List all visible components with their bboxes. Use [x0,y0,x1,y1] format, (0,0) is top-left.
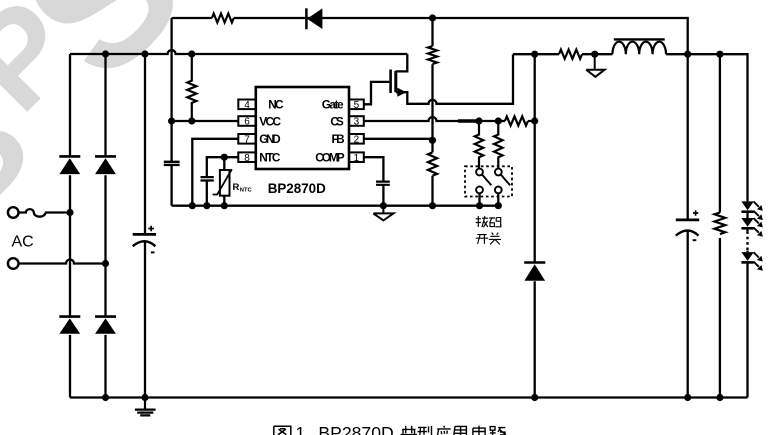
svg-text:VCC: VCC [259,115,281,129]
resistor R4 (FB divider lower) [428,152,437,175]
wire AC bottom to bridge node (hop over left leg) [19,260,106,264]
svg-text:COMP: COMP [315,151,345,165]
svg-text:R: R [233,182,240,193]
wire freewheel column [534,54,536,397]
node rail SW1b [495,202,502,209]
wire NTC pin node [207,157,239,206]
node rail RNTC [221,202,228,209]
wire gate from pin 5 [364,82,390,104]
fuse F1 [19,209,46,217]
node VCC left [168,117,175,124]
pin 5 box [349,100,364,110]
switch SW1 stubs to ground rail [480,193,499,205]
node rail COMP [380,202,387,209]
svg-text:NTC: NTC [240,187,253,193]
svg-text:1: 1 [295,423,305,435]
resistor R1 (VCC feed) [212,14,234,23]
node rail SW1a [476,202,483,209]
node VCC right [188,117,195,124]
label dip-switch line2 (开关) [476,233,501,245]
resistor R3 (FB divider upper) [428,46,437,64]
switch SW1 dashed box [465,166,512,196]
svg-text:FB: FB [332,132,345,146]
AC input terminal bottom [8,258,19,269]
svg-text:NC: NC [268,98,284,112]
node rail bottom C [141,394,148,401]
resistor R5 (CS set 1) [475,121,484,169]
wire switch node bus [513,54,748,201]
capacitor C4 (COMP) [376,182,390,185]
node VCC feed tap [429,14,436,21]
transistor Q1 gate bar [389,70,392,94]
node bus leg B [102,50,109,57]
wire CS from pin 3 (hop over FB column) [364,117,458,121]
LED D7 [741,201,753,210]
resistor R9 (load bleeder) [715,213,726,235]
node rail bottom B [102,394,109,401]
AC input terminal top [8,207,19,218]
node switch bus CS [531,51,538,58]
label dip-switch line1 (拨码) [476,216,501,227]
switch SW1 contacts [476,169,483,176]
pin 1 box [349,152,364,162]
ground (COMP, open triangle) [373,206,393,221]
svg-text:3: 3 [354,117,360,128]
svg-text:AC: AC [12,233,34,250]
node rail GND pin [189,202,196,209]
wire output resistor column [719,54,721,397]
svg-text:BP2870D: BP2870D [268,181,326,196]
pin 4 box [238,100,256,110]
node NTC [221,154,228,161]
svg-text:8: 8 [244,153,250,164]
diode D6 (freewheel) [524,261,545,264]
capacitor C3 (NTC filter) [201,177,214,180]
diode D5 (VCC feed, pointing left) [305,8,308,29]
wire FB from pin 2 [364,138,433,140]
wire chip local ground rail [172,205,499,207]
switch SW1 arms [482,175,510,186]
pin 2 box [349,134,364,144]
wire bridge left leg [69,54,71,398]
node FB [429,137,436,144]
svg-text:6: 6 [244,117,250,128]
diode D2 (bridge upper-right) [95,155,116,158]
wire rectified bus [70,50,407,54]
wire VCC pin to cap [172,120,239,122]
diode D3 (bridge lower-left) [59,315,80,318]
resistor R7 (CS series) [505,116,528,125]
node CS set 2 [495,117,502,124]
node CS set 1 [475,117,482,124]
inductor L1 [612,42,666,55]
capacitor C5 electrolytic output [676,218,699,221]
wire bottom rail [70,396,748,398]
resistor R6 (CS set 2) [494,121,503,169]
wire dotted LED continuation [746,228,748,252]
node rail NTC cap [203,202,210,209]
node output A [684,51,691,58]
svg-text:CS: CS [330,115,343,129]
pin 8 box [238,152,256,162]
transistor Q1 channel bar [394,71,397,92]
ground main [135,398,156,416]
resistor R8 (output sense) [559,50,582,59]
node output B [716,51,723,58]
wire bridge right leg [104,54,106,398]
svg-text:2: 2 [354,135,360,146]
node bus cap [141,50,148,57]
diode D4 (bridge lower-right) [95,315,116,318]
node inductor gnd [591,51,598,58]
node AC bottom tap [102,260,109,267]
LED D8 [746,212,748,218]
node AC top tap [66,209,73,216]
node rail bottom diode [531,394,538,401]
transistor Q1 drain wire [396,54,408,71]
caption figure (partially cropped) [274,426,291,435]
svg-text:GND: GND [259,132,281,146]
wire AC top to bridge node [45,211,70,213]
thermistor RNTC [223,157,225,206]
LED D9 [741,252,753,261]
pin labels [259,98,345,165]
svg-text:7: 7 [244,135,250,146]
node bus startup [188,50,195,57]
svg-text:4: 4 [244,100,250,111]
wire COMP from pin 1 [364,157,384,206]
wire input cap column [144,54,146,398]
capacitor C2 (VCC decoupling) [164,162,180,165]
ground (inductor node, open triangle) [586,54,604,77]
transistor Q1 source wire (hop over FB column) [396,54,513,104]
svg-text:BP2870D: BP2870D [318,423,393,435]
svg-text:NTC: NTC [259,151,281,165]
pin 6 box [238,116,256,126]
svg-text:5: 5 [354,100,360,111]
wire VCC top feed [172,18,688,54]
svg-text:Gate: Gate [322,98,344,112]
wire LED column bottom [746,262,748,397]
wire FB divider column [431,18,433,206]
diode D1 (bridge upper-left) [59,155,80,158]
wire VCC cap column [170,18,172,206]
pin 7 box [238,134,256,144]
IC U1 BP2870D body [256,87,349,169]
svg-text:1: 1 [354,153,360,164]
pin 3 box [349,116,364,126]
resistor R2 (startup, bus to VCC) [187,54,196,121]
wire output cap column [687,54,689,397]
capacitor C1 electrolytic input [133,233,156,236]
transistor Q1 source arrow [397,88,406,97]
wire GND pin down [192,139,238,206]
pin numbers [244,100,359,164]
node rail FB [429,202,436,209]
node rail bottom cap [684,394,691,401]
node CS top [531,117,538,124]
node rail bottom res [716,394,723,401]
